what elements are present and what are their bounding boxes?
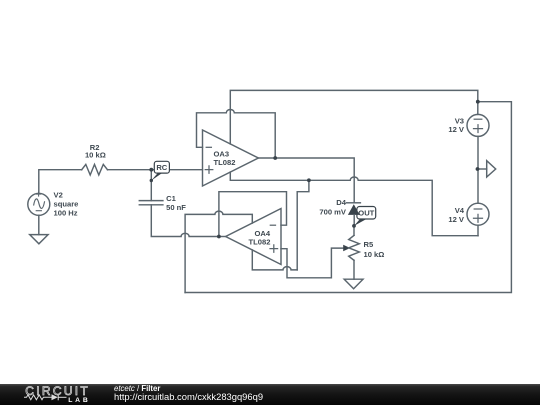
OA3 V+ pin wire up to top rail, right to V3 node (230, 90, 477, 143)
svg-text:TL082: TL082 (214, 158, 236, 167)
wire OA4 output stub (219, 236, 226, 238)
wire C1 bottom to OA4 output node (hop over vertical) (151, 205, 219, 237)
svg-text:12 V: 12 V (448, 215, 465, 224)
svg-text:12 V: 12 V (448, 125, 465, 134)
voltage source V2 (28, 192, 50, 215)
node dot V- rail junction (307, 178, 311, 182)
voltage source V4 (467, 203, 489, 225)
node dot V3 top junction (476, 100, 480, 104)
node dot D4/R5/OUT junction (352, 224, 356, 228)
op-amp OA4 (points left) (226, 209, 281, 265)
logo resistor zigzag and diode (24, 394, 67, 400)
capacitor C1 (139, 201, 163, 205)
svg-text:D4: D4 (336, 198, 346, 207)
svg-text:TL082: TL082 (249, 237, 271, 246)
wire R5 to ground (353, 260, 355, 279)
wire V2 top to R2 (39, 170, 82, 194)
wire V3 to mid node (477, 136, 479, 203)
op-amp OA3 (203, 130, 259, 186)
ground (sideways) at V3/V4 mid node (478, 161, 496, 177)
wire D4 to R5 node (353, 226, 355, 235)
OA4 V+ pin wire: up, left (hop over feedback), down to bottom rail (185, 211, 252, 292)
OA4 + input wire to R5 wiper (281, 248, 344, 278)
bottom positive rail (185, 102, 511, 293)
OA3 output wire to D4 branch (258, 158, 354, 203)
svg-text:square: square (54, 199, 79, 208)
wire node to C1 (150, 170, 152, 201)
svg-text:OUT: OUT (358, 208, 374, 217)
svg-text:OA3: OA3 (214, 149, 230, 158)
node dot OA3 output (273, 156, 277, 160)
R5 wiper arrowhead (343, 245, 350, 251)
svg-text:RC: RC (156, 163, 167, 172)
OA4 V- pin wire: down, right (hop over + input wire), up to V- rail (252, 250, 297, 270)
node dot RC flag attach (150, 179, 153, 182)
OA3 feedback: - input stub, up, over (hop at V+ wire), down to output node (197, 110, 276, 158)
net flag OUT (354, 207, 376, 226)
svg-text:V2: V2 (54, 190, 63, 199)
node dot R2/C1/OA3+ junction (149, 168, 153, 172)
wire V2 bottom to ground (38, 215, 40, 234)
wire R2 to OA3 + input (108, 169, 203, 171)
footer bar (0, 384, 540, 405)
OA3 V- pin wire down and right (V- rail, hop over D4 wire) (230, 172, 478, 236)
svg-text:100 Hz: 100 Hz (54, 208, 78, 217)
svg-text:10 kΩ: 10 kΩ (364, 250, 385, 259)
svg-text:R5: R5 (364, 240, 374, 249)
net flag RC (151, 161, 169, 180)
ground below V2 (30, 235, 48, 244)
OA4 feedback loop: output node up, right, down to - input (219, 192, 287, 237)
voltage source V3 (467, 114, 489, 136)
ground below R5 (344, 279, 363, 289)
wire V4 bottom to V- rail (477, 225, 479, 236)
potentiometer R5 (349, 235, 360, 260)
svg-text:700 mV: 700 mV (319, 208, 347, 217)
OA4 plus sign (270, 245, 278, 252)
svg-text:CIRCUIT: CIRCUIT (25, 384, 90, 398)
node dot V3/V4 mid junction (476, 167, 480, 171)
svg-text:50 nF: 50 nF (166, 203, 186, 212)
svg-text:http://circuitlab.com/cxkk283g: http://circuitlab.com/cxkk283gq96q9 (114, 391, 263, 402)
V- rail jog down to OA4 V- wire (297, 180, 309, 270)
resistor R2 (82, 164, 108, 175)
OA3 plus sign (205, 166, 213, 173)
diode D4 (pointing up) (347, 203, 361, 226)
node dot OA4 output (217, 235, 221, 239)
svg-text:V4: V4 (455, 206, 465, 215)
OA4 minus sign (270, 224, 275, 226)
svg-text:C1: C1 (166, 194, 176, 203)
svg-text:10 kΩ: 10 kΩ (85, 151, 106, 160)
OA3 minus sign (206, 146, 211, 148)
svg-text:LAB: LAB (68, 397, 90, 404)
